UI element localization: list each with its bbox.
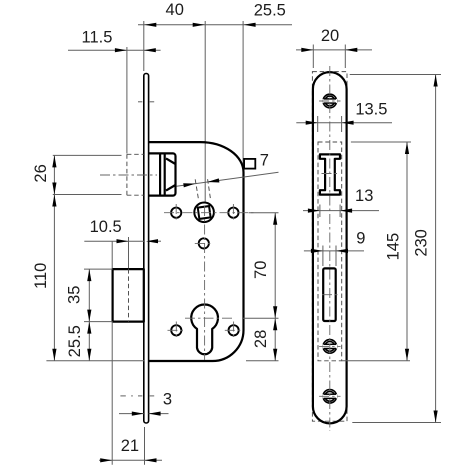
dimension 10.5 bbox=[84, 218, 161, 268]
extension line y=318.2 right of case bbox=[243, 317, 279, 319]
svg-text:70: 70 bbox=[252, 261, 270, 279]
dimension 70 bbox=[252, 213, 277, 319]
svg-text:9: 9 bbox=[356, 229, 365, 247]
dimension 35 bbox=[66, 269, 92, 322]
extension line y=142 right of plate bbox=[351, 141, 411, 143]
extension line y=422.5 right of plate bbox=[352, 422, 441, 424]
deadbolt retracted face (dashed) bbox=[128, 269, 130, 322]
extension line x=143.8 (faceplate front, top) bbox=[143, 21, 145, 71]
svg-text:25.5: 25.5 bbox=[66, 325, 84, 357]
spindle vertical centerline down to cylinder bbox=[204, 206, 206, 360]
extension line y=360.8 right of plate bbox=[342, 360, 410, 362]
latch bolt extended (dashed box) bbox=[127, 154, 144, 195]
left extension line y=194.5 bbox=[53, 194, 122, 196]
dimension 28 bbox=[252, 318, 277, 361]
dimension 11.5 bbox=[68, 28, 161, 52]
svg-text:10.5: 10.5 bbox=[90, 218, 122, 236]
dimension 26 bbox=[32, 155, 56, 194]
screw hole below spindle bbox=[195, 238, 213, 248]
lock case hidden outline (dashed) bbox=[318, 142, 342, 361]
svg-text:13.5: 13.5 bbox=[355, 101, 387, 119]
latch bolt (solid, side view) bbox=[149, 153, 176, 195]
svg-text:26: 26 bbox=[32, 164, 50, 182]
dimension 110 bbox=[32, 195, 57, 361]
dimension 20 bbox=[296, 27, 372, 68]
latch opening (I shape) bbox=[320, 154, 340, 194]
dimension 13.5 bbox=[296, 101, 392, 132]
top screw bbox=[319, 94, 340, 108]
extension line y=74.5 right of plate bbox=[350, 74, 441, 76]
middle screw bbox=[319, 340, 340, 354]
dashed recess rectangle around plate bbox=[312, 72, 347, 422]
svg-text:13: 13 bbox=[355, 187, 373, 205]
faceplate side view (thin vertical bar) bbox=[144, 74, 149, 424]
extension line x=205.2 (spindle axis vertical) bbox=[204, 21, 206, 203]
euro profile cylinder hole bbox=[191, 304, 218, 354]
label square-7 with leader bbox=[177, 152, 279, 200]
left extension line y=360.8 bbox=[46, 360, 144, 362]
screw hole right of cylinder bbox=[225, 322, 243, 340]
svg-text:3: 3 bbox=[163, 391, 172, 409]
deadbolt opening bbox=[322, 268, 338, 321]
dimension 40 bbox=[138, 1, 292, 27]
screw hole left of cylinder bbox=[168, 322, 186, 340]
plate vertical centerline bbox=[329, 66, 331, 431]
latch centerline bbox=[100, 174, 157, 176]
svg-text:28: 28 bbox=[252, 330, 270, 348]
dimension 3 bbox=[119, 391, 172, 416]
spindle horizontal centerline bbox=[164, 212, 256, 214]
left extension line y=155.4 bbox=[53, 154, 122, 156]
dimension 230 bbox=[412, 75, 437, 423]
bottom screw bbox=[319, 390, 340, 404]
faceplate front view (stadium) bbox=[313, 72, 347, 423]
screw axis cross on faceplate (top) bbox=[138, 101, 154, 103]
svg-text:110: 110 bbox=[32, 263, 50, 289]
extension line x=126.9 (latch front face) bbox=[126, 47, 128, 154]
screw hole right of spindle bbox=[228, 204, 238, 221]
dimension 9 bbox=[304, 229, 366, 266]
extension line y=212.7 right of case bbox=[249, 212, 279, 214]
svg-text:7: 7 bbox=[260, 152, 269, 170]
svg-text:230: 230 bbox=[412, 229, 430, 257]
dimension 25.5 left bbox=[66, 322, 92, 361]
dimension 21 bbox=[99, 322, 162, 465]
dimension 13 bbox=[303, 187, 379, 217]
screw hole left of spindle bbox=[171, 204, 181, 221]
extension line y=321.6 (deadbolt bottom) bbox=[84, 321, 113, 323]
screw axis cross on faceplate (bottom) bbox=[120, 395, 154, 397]
svg-text:145: 145 bbox=[385, 233, 403, 261]
extension line y=360.8 right of case bbox=[246, 360, 279, 362]
dimension 25.5 top bbox=[254, 1, 286, 19]
cylinder horizontal centerline bbox=[185, 317, 232, 319]
svg-text:25.5: 25.5 bbox=[254, 1, 286, 19]
svg-text:40: 40 bbox=[166, 1, 184, 19]
spindle follower (square hub) bbox=[194, 203, 214, 223]
svg-text:35: 35 bbox=[66, 286, 84, 304]
svg-text:21: 21 bbox=[121, 437, 139, 455]
deadbolt (side view, thrown) bbox=[113, 269, 144, 322]
lock case outline bbox=[149, 142, 244, 361]
dimension 145 bbox=[385, 142, 410, 361]
svg-text:20: 20 bbox=[321, 27, 339, 45]
svg-text:11.5: 11.5 bbox=[82, 28, 113, 46]
extension line x=243.1 (case right edge, top) bbox=[242, 21, 244, 171]
extension line y=269.1 (deadbolt top) bbox=[84, 268, 113, 270]
